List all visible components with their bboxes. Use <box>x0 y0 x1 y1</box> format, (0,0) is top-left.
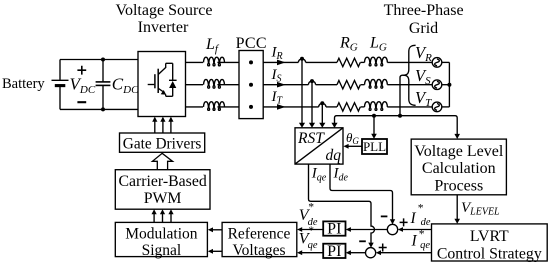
arrow hollow PWM to gate drivers <box>152 153 172 169</box>
svg-text:Signal: Signal <box>142 242 182 259</box>
resistor RG phase R <box>337 58 360 66</box>
inductor LG phase R <box>365 57 388 66</box>
diode D1 freewheeling <box>169 63 177 96</box>
arrow gate signals into inverter <box>152 117 173 122</box>
label minus sign battery <box>77 101 86 103</box>
arrow PLL output into RST <box>343 144 348 149</box>
wire tap T down to RST <box>321 103 323 123</box>
wire reference voltages to modulation lower <box>212 250 222 252</box>
arrow current IT <box>277 104 286 110</box>
tap hop phase S <box>308 81 315 85</box>
svg-text:PI: PI <box>327 243 341 260</box>
node bus brace junction <box>398 114 402 118</box>
arrow into lower PI <box>346 250 351 255</box>
svg-text:Control Strategy: Control Strategy <box>437 246 542 263</box>
wire neutral bus <box>448 62 450 107</box>
wire tap R down to RST <box>301 59 303 123</box>
capacitor CDC <box>96 60 111 110</box>
svg-text:Grid: Grid <box>409 20 438 37</box>
node tap R <box>300 57 304 61</box>
wire VLCP to LVRT <box>456 195 458 220</box>
block PLL <box>362 139 387 154</box>
wire tap S down to RST <box>311 81 313 123</box>
title Voltage Source Inverter <box>115 2 212 36</box>
node tap T <box>320 101 324 105</box>
wire VT to neutral <box>442 106 450 108</box>
wire LVRT to lower summer <box>380 252 431 254</box>
wire dc bottom <box>60 108 138 110</box>
wire Ide from RST <box>330 164 393 220</box>
svg-text:Reference: Reference <box>228 226 291 243</box>
block PI lower <box>323 243 345 260</box>
svg-text:Voltage Level: Voltage Level <box>414 143 504 160</box>
label plus upper summer <box>400 218 408 226</box>
svg-text:PCC: PCC <box>236 35 267 52</box>
PCC box <box>239 51 263 119</box>
svg-text:PWM: PWM <box>144 190 182 207</box>
svg-text:Process: Process <box>434 177 483 194</box>
resistor RG phase S <box>337 81 360 89</box>
label plus sign battery <box>77 66 86 75</box>
svg-text:Carrier-Based: Carrier-Based <box>118 173 206 190</box>
arrow bus into VLCP <box>454 134 460 139</box>
arrow into RST input R <box>299 123 305 128</box>
svg-text:Battery: Battery <box>2 76 45 92</box>
wire brace to measurement bus <box>400 75 404 116</box>
block PI upper <box>323 221 345 238</box>
arrow into LVRT <box>454 219 460 224</box>
node dc top junction <box>101 58 105 62</box>
source VR <box>432 58 442 68</box>
resistor RG phase T <box>337 103 360 111</box>
tap hop phase T <box>319 103 326 107</box>
svg-text:LVRT: LVRT <box>470 228 509 245</box>
arrow Iqe into lower summer <box>368 243 373 248</box>
svg-text:PLL: PLL <box>363 139 386 154</box>
wire PLL drop <box>373 116 375 135</box>
label plus lower summer <box>379 244 387 252</box>
wire gate driver arrows to inverter <box>155 121 171 133</box>
inductor Lf phase R <box>204 57 225 66</box>
source VT <box>432 102 442 112</box>
svg-text:Inverter: Inverter <box>138 19 189 36</box>
node dc bottom junction <box>101 107 105 111</box>
wire lower summer to PI <box>350 252 366 254</box>
inverter box U1 <box>138 52 186 117</box>
wire VS to neutral <box>442 84 450 86</box>
arrow into PLL <box>371 134 377 139</box>
wire measurement bus <box>335 116 458 135</box>
tap hop phase R <box>298 59 305 63</box>
svg-text:Voltage Source: Voltage Source <box>115 2 212 19</box>
arrow Ide into upper summer <box>390 219 395 224</box>
svg-text:Three-Phase: Three-Phase <box>384 2 464 19</box>
node tap S <box>310 79 314 83</box>
arrow current IR <box>277 60 286 66</box>
wire phase S to grid <box>217 84 432 86</box>
arrow into modulation upper <box>208 227 213 232</box>
node PCC phase S <box>249 83 253 87</box>
block Voltage Level Calculation Process <box>411 139 506 195</box>
label minus lower summer <box>359 240 366 242</box>
summer lower node <box>366 248 376 258</box>
title Three-Phase Grid <box>384 2 464 37</box>
wire PLL to RST <box>348 145 362 147</box>
arrow into upper PI <box>346 227 351 232</box>
node neutral junction <box>447 83 451 87</box>
wire phase R inverter to inductor <box>186 61 204 63</box>
label minus upper summer <box>381 215 388 217</box>
inductor LG phase S <box>365 79 388 88</box>
wire lower PI to reference voltages <box>301 252 323 254</box>
wire phase R to grid <box>217 61 432 63</box>
source VS <box>432 80 442 90</box>
arrow Iqe ref into lower summer <box>376 250 381 255</box>
arrow into RST input S <box>309 123 315 128</box>
wire phase S inverter to inductor <box>186 84 204 86</box>
brace grouping grid sources <box>403 45 416 105</box>
wire LVRT to upper summer <box>402 229 431 231</box>
svg-text:PI: PI <box>327 221 341 238</box>
svg-text:dq: dq <box>326 147 342 164</box>
block Carrier-Based PWM <box>115 170 210 210</box>
block RST dq transform <box>295 128 343 164</box>
arrow into RST input T <box>319 123 325 128</box>
battery B1 <box>52 80 69 85</box>
svg-text:Voltages: Voltages <box>232 242 285 259</box>
wire upper summer to PI <box>350 229 387 231</box>
svg-text:RST: RST <box>297 130 325 147</box>
wire modulation arrows to PWM <box>154 213 171 222</box>
wire Iqe from RST <box>309 164 375 243</box>
arrow bus into RST <box>331 123 337 128</box>
block Modulation Signal <box>115 222 207 259</box>
block Reference Voltages <box>222 222 297 259</box>
arrow into modulation lower <box>208 249 213 254</box>
wire reference voltages to modulation upper <box>212 229 222 231</box>
node PCC phase R <box>249 60 253 64</box>
transistor Q1 IGBT <box>148 63 173 96</box>
block Gate Drivers <box>120 133 205 152</box>
wire phase T to grid <box>217 106 432 108</box>
wire phase T inverter to inductor <box>186 106 204 108</box>
node PCC phase T <box>249 105 253 109</box>
arrow Ide ref into upper summer <box>398 227 403 232</box>
arrow current IS <box>277 82 286 88</box>
arrow Vqe ref into reference voltages <box>297 250 302 255</box>
wire dc top <box>60 59 138 61</box>
svg-text:Gate Drivers: Gate Drivers <box>123 135 202 152</box>
svg-text:Calculation: Calculation <box>422 160 496 177</box>
inductor LG phase T <box>365 102 388 111</box>
svg-text:Modulation: Modulation <box>125 226 198 243</box>
block LVRT Control Strategy <box>432 224 548 263</box>
wire VR to neutral <box>442 61 450 63</box>
inductor Lf phase T <box>204 102 225 111</box>
inductor Lf phase S <box>204 79 225 88</box>
arrow Vde ref into reference voltages <box>297 227 302 232</box>
wire upper PI to reference voltages <box>301 229 323 231</box>
arrow modulation signals into PWM <box>152 209 174 214</box>
summer upper node <box>387 224 397 234</box>
wire battery left <box>59 60 61 110</box>
node bus PLL tap <box>372 114 376 118</box>
